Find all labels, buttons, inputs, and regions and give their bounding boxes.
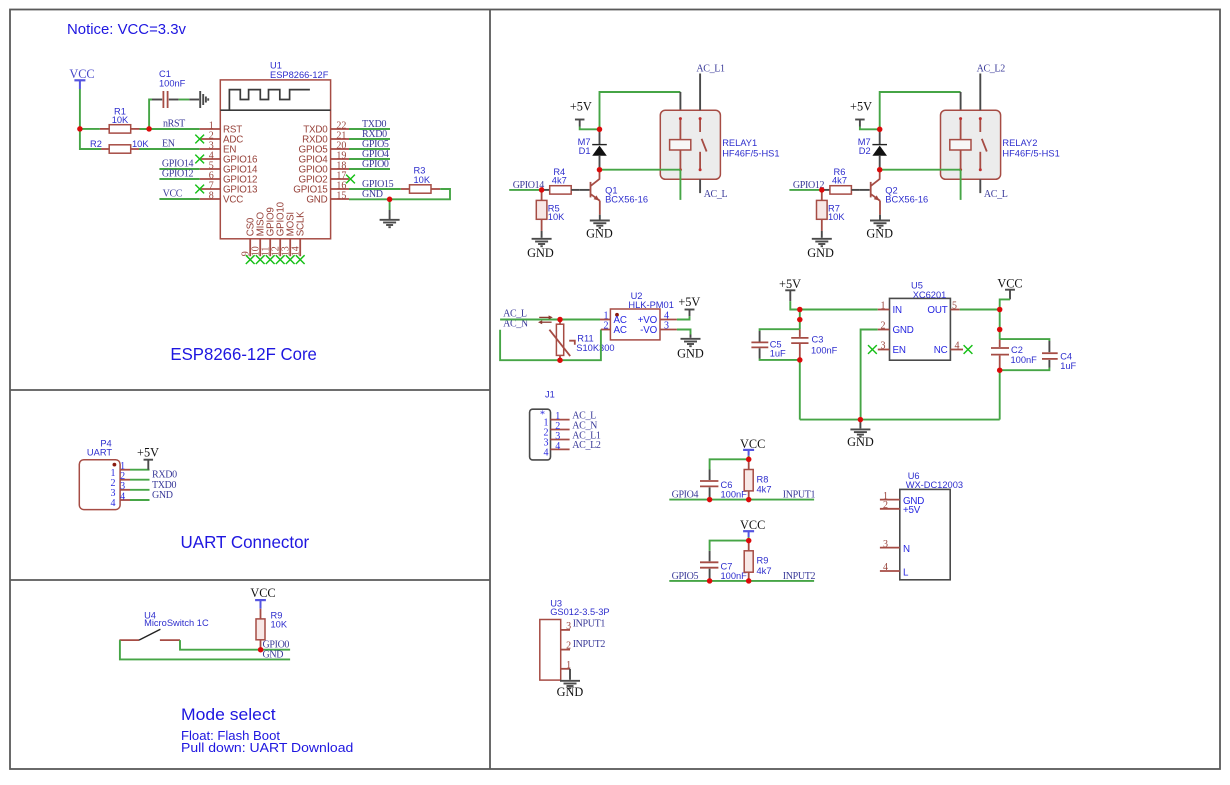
relay1 node collector junction [597, 167, 603, 173]
U5 pin 1 IN [878, 301, 902, 316]
relay2 wire +5V junction to relay coil top [880, 92, 961, 129]
frame divider box1/box2 [10, 389, 490, 391]
svg-text:2: 2 [883, 500, 888, 511]
relay1 node diode/+5V junction [597, 127, 603, 133]
wire OUT to VCC node [960, 309, 1000, 311]
wire C5 loop bottom [760, 359, 800, 360]
filter INPUT1 node VCC junction [746, 457, 752, 463]
P4 pin 1 [111, 461, 131, 479]
svg-text:R8: R8 [757, 474, 769, 484]
filter INPUT1 wire VCC stub [748, 456, 750, 460]
no-connect pin 9 [246, 255, 255, 264]
U2 pin 1 AC [600, 311, 627, 326]
wire OUT down [999, 310, 1001, 340]
U1 antenna separator [220, 109, 330, 111]
filter INPUT2 capacitor C7 100nF [700, 551, 747, 581]
ground at rail [850, 420, 870, 437]
relay1 diode M7 D1 [578, 129, 607, 169]
filter INPUT1 node cap bottom [707, 497, 713, 503]
svg-text:VCC: VCC [163, 189, 183, 200]
svg-text:GPIO4: GPIO4 [672, 490, 699, 501]
relay2 ground under Q2 [870, 221, 890, 228]
wire AC_L [500, 319, 600, 321]
svg-text:AC_L: AC_L [704, 189, 728, 200]
svg-text:4: 4 [555, 441, 560, 452]
relay1 wire +5V to diode [580, 127, 600, 130]
resistor R2 10K [90, 139, 149, 153]
J1 pin 4 [544, 441, 570, 459]
wire -VO to ground [677, 330, 691, 335]
svg-text:UART Connector: UART Connector [181, 532, 310, 552]
svg-text:3: 3 [881, 341, 886, 352]
node C3 bottom junction [797, 357, 803, 363]
U1 left pin 6 GPIO12 [200, 171, 258, 186]
svg-text:N: N [903, 544, 910, 555]
svg-text:BCX56-16: BCX56-16 [885, 194, 928, 204]
power flag VCC (U5 out) [997, 276, 1022, 299]
svg-text:4: 4 [544, 447, 549, 458]
filter INPUT2 wire VCC to cap [710, 541, 749, 551]
svg-text:IN: IN [893, 305, 903, 316]
no-connect pin 10 [256, 255, 265, 264]
node nRST junction [146, 126, 152, 132]
U5 pin 3 EN [878, 341, 906, 356]
svg-text:C3: C3 [812, 334, 824, 344]
no-connect pin 12 [276, 255, 285, 264]
connector U3 GS012-3.5-3P body [540, 599, 610, 681]
svg-text:10K: 10K [548, 212, 565, 222]
svg-text:10K: 10K [112, 115, 129, 125]
filter INPUT2 wire bottom [669, 580, 814, 582]
wire switch left to GND rail [120, 640, 290, 659]
wire +5V to rail [790, 301, 800, 309]
node R9/GPIO0 junction [258, 647, 264, 653]
svg-text:100nF: 100nF [721, 490, 748, 500]
wire C5 loop top [760, 329, 800, 331]
ground at U3 [560, 681, 580, 688]
relay1 power flag +5V [570, 99, 592, 126]
P4 pin 3 [111, 481, 131, 499]
no-connect pin 13 [286, 255, 295, 264]
svg-text:AC: AC [614, 325, 627, 336]
svg-text:1: 1 [881, 301, 886, 312]
U3 pin 2 [561, 641, 571, 652]
relay2 refdes RELAY2 [1002, 138, 1059, 158]
relay1 resistor R5 10K [536, 190, 565, 231]
capacitor C1 100nF [152, 69, 186, 108]
svg-text:VCC: VCC [250, 586, 275, 600]
svg-text:100nF: 100nF [811, 345, 838, 355]
relay2 wire Q emitter to ground [879, 215, 881, 220]
svg-text:MicroSwitch 1C: MicroSwitch 1C [144, 618, 209, 628]
wire U3 pin1 to ground [569, 669, 571, 680]
svg-text:3: 3 [566, 621, 571, 632]
power flag +5V (UART) [137, 446, 159, 470]
svg-text:J1: J1 [545, 389, 555, 399]
U1 refdes [270, 61, 329, 80]
svg-text:GPIO12: GPIO12 [162, 169, 194, 180]
U3 pin 3 [561, 621, 571, 632]
op-amp U6 WX-DC12003 body [900, 471, 963, 580]
svg-text:HLK-PM01: HLK-PM01 [628, 300, 673, 310]
relay1 wire relay coil top pin [679, 92, 681, 110]
U1 right pin 19 GPIO4 [299, 151, 349, 166]
power flag +5V (rail) [779, 277, 801, 301]
svg-text:VCC: VCC [223, 195, 243, 206]
no-connect pin4 GPIO16 [195, 155, 204, 164]
no-connect pin17 GPIO2 [346, 175, 355, 184]
relay1 wire collector to coil bottom [600, 169, 681, 171]
relay2 node diode/+5V junction [877, 127, 883, 133]
svg-text:HF46F/5-HS1: HF46F/5-HS1 [1002, 149, 1059, 159]
U1 left pin 4 GPIO16 [200, 151, 258, 166]
svg-text:GND: GND [893, 325, 914, 336]
svg-text:Notice: VCC=3.3v: Notice: VCC=3.3v [67, 22, 187, 38]
node gnd rail junction [858, 417, 864, 423]
svg-text:GND: GND [306, 195, 327, 206]
svg-text:2: 2 [566, 641, 571, 652]
relay2 wire R pull to ground [821, 231, 823, 238]
filter INPUT1 node res bottom [746, 497, 752, 503]
svg-text:C2: C2 [1011, 345, 1023, 355]
svg-text:2: 2 [604, 321, 609, 332]
U6 pin 3 N [880, 539, 910, 555]
wire C1 to ground [179, 99, 190, 101]
svg-text:S10K300: S10K300 [576, 343, 614, 353]
svg-text:100nF: 100nF [721, 571, 748, 581]
svg-text:GPIO0: GPIO0 [362, 159, 389, 170]
resistor R1 10K [100, 107, 140, 134]
svg-text:RELAY1: RELAY1 [722, 138, 757, 148]
filter INPUT2 node res bottom [746, 578, 752, 584]
no-connect pin2 ADC [195, 135, 204, 144]
svg-text:WX-DC12003: WX-DC12003 [906, 480, 963, 490]
J1 pin 3 [544, 431, 570, 449]
frame divider box2/box3 [10, 579, 490, 581]
relay2 wire GPIO12 to R pull [789, 189, 821, 191]
relay2 node collector junction [877, 167, 883, 173]
relay1 relay top-right pin [699, 74, 701, 111]
U1 right pin 22 TXD0 [303, 121, 349, 136]
svg-text:4: 4 [120, 491, 125, 502]
U2 pin 4 +VO [638, 311, 677, 326]
svg-text:R3: R3 [414, 165, 426, 175]
svg-text:AC_L1: AC_L1 [696, 64, 725, 75]
svg-text:GS012-3.5-3P: GS012-3.5-3P [550, 607, 609, 617]
U5 pin 5 OUT [927, 301, 959, 316]
svg-text:15: 15 [336, 191, 346, 202]
wire rail to U5 IN [800, 309, 878, 311]
node C2 bottom junction [997, 367, 1003, 373]
wire +VO to +5V [677, 316, 690, 319]
svg-text:GND: GND [152, 490, 173, 501]
op-amp U5 XC6201 body [890, 281, 951, 361]
svg-text:4k7: 4k7 [757, 566, 772, 576]
svg-text:GPIO5: GPIO5 [672, 571, 699, 582]
relay1 transistor Q1 BCX56-16 [591, 170, 649, 215]
svg-text:Mode select: Mode select [181, 705, 276, 724]
filter INPUT1 wire VCC to cap [710, 459, 749, 469]
svg-text:nRST: nRST [163, 119, 185, 130]
relay2 relay RELAY2 HF46F/5-HS1 body [941, 110, 1001, 179]
svg-text:2: 2 [881, 321, 886, 332]
wire P4 pin 3 [130, 489, 150, 491]
U1 right pin 17 GPIO2 [299, 171, 349, 186]
relay2 relay bottom-right pin [979, 179, 981, 193]
capacitor C2 100nF [991, 339, 1037, 370]
wire R2 to pin3 EN [139, 148, 200, 150]
svg-text:OUT: OUT [927, 305, 947, 316]
node VCC/R1/R2 junction [77, 126, 83, 132]
relay1 relay bottom-right pin [699, 179, 701, 193]
svg-text:5: 5 [952, 301, 957, 312]
svg-text:10K: 10K [132, 139, 149, 149]
relay2 diode M7 D2 [858, 129, 887, 169]
wire C4 loop top [1000, 339, 1050, 341]
U1 left pin 2 ADC [200, 131, 244, 146]
relay1 wire coil bottom down [679, 170, 681, 200]
U6 pin 4 L [880, 562, 909, 578]
U1 bottom pin 10 MISO [251, 211, 267, 256]
U1 bottom pin 12 GPIO10 [271, 201, 287, 256]
relay2 relay contact [979, 117, 987, 171]
svg-text:ESP8266-12F: ESP8266-12F [270, 70, 329, 80]
resistor R3 10K [401, 165, 440, 193]
wire switch right to GPIO0 rail [180, 640, 290, 650]
relay2 power flag +5V [850, 99, 872, 126]
U1 antenna glyph [229, 90, 310, 110]
U1 right pin 21 RXD0 [302, 131, 349, 146]
wire GPIO12 to pin6 [159, 178, 199, 180]
filter INPUT2 node VCC junction [746, 538, 752, 544]
no-connect pin7 GPIO13 [195, 185, 204, 194]
no-connect pin 14 [296, 255, 305, 264]
svg-text:+5V: +5V [678, 295, 700, 309]
svg-text:GND: GND [263, 650, 284, 661]
node rail junction 2 [797, 317, 803, 323]
relay2 wire relay coil top pin [960, 92, 962, 110]
relay2 relay top-right pin [979, 74, 981, 111]
node R11 bottom junction [557, 357, 563, 363]
svg-text:+5V: +5V [137, 446, 159, 460]
relay1 wire R pull to ground [541, 231, 543, 238]
op-amp U1 ESP8266-12F body [220, 80, 330, 239]
svg-text:GND: GND [866, 227, 893, 241]
svg-text:D1: D1 [579, 146, 591, 156]
svg-text:INPUT2: INPUT2 [783, 571, 816, 582]
U1 left pin 3 EN [200, 141, 237, 156]
svg-text:L: L [903, 567, 909, 578]
wire pin22 TXD0 [349, 128, 390, 130]
svg-text:8: 8 [209, 191, 214, 202]
U1 bottom pin 9 CS0 [241, 217, 257, 256]
ground (rotated) at C1 [189, 91, 208, 108]
U1 bottom pin 11 GPIO9 [261, 207, 277, 256]
svg-text:4: 4 [955, 341, 960, 352]
svg-text:100nF: 100nF [159, 79, 186, 89]
svg-text:NC: NC [934, 345, 948, 356]
wire C4 loop bottom [1000, 368, 1050, 371]
svg-text:GND: GND [586, 227, 613, 241]
ground at U1 pin15 [380, 210, 400, 227]
svg-text:+5V: +5V [570, 99, 592, 113]
svg-text:+5V: +5V [850, 99, 872, 113]
filter INPUT2 resistor R9 4k7 [744, 541, 771, 581]
svg-text:4: 4 [111, 498, 116, 509]
svg-text:EN: EN [162, 139, 175, 150]
U1 bottom pin 14 SCLK [291, 211, 307, 256]
wire C2 down to rail [999, 370, 1001, 419]
svg-text:INPUT1: INPUT1 [573, 619, 606, 630]
svg-text:R2: R2 [90, 139, 102, 149]
relay1 ground under R5 [532, 239, 552, 246]
power flag VCC (mode select) [250, 586, 275, 609]
wire pin20 GPIO5 [349, 148, 390, 150]
svg-text:ESP8266-12F Core: ESP8266-12F Core [170, 344, 317, 364]
U6 pin 2 +5V [880, 500, 921, 516]
svg-text:AC_L: AC_L [984, 189, 1008, 200]
U1 left pin 7 GPIO13 [200, 181, 258, 196]
wire P4 pin 4 [130, 499, 150, 501]
relay1 relay coil [670, 117, 691, 171]
U3 pin 1 [561, 660, 571, 671]
U1 right pin 15 GND [306, 191, 349, 206]
wire U5 GND loop [861, 330, 878, 420]
svg-text:D2: D2 [859, 146, 871, 156]
U2 pin 2 AC [601, 321, 627, 336]
wire GPIO14 to pin5 [159, 168, 199, 170]
svg-text:SCLK: SCLK [296, 211, 307, 236]
J1 pin 1 [544, 411, 570, 429]
svg-text:XC6201: XC6201 [913, 290, 947, 300]
svg-text:100nF: 100nF [1011, 355, 1038, 365]
svg-text:+5V: +5V [903, 505, 921, 516]
node GND junction (pin15) [387, 197, 393, 203]
relay1 wire GPIO14 to R pull [509, 189, 541, 191]
wire VCC vertical to R2 [80, 89, 101, 149]
filter INPUT1 resistor R8 4k7 [744, 459, 771, 499]
svg-text:Pull down: UART Download: Pull down: UART Download [181, 740, 353, 755]
U1 left pin 8 VCC [200, 191, 244, 206]
relay1 relay contact [699, 117, 707, 171]
svg-text:VCC: VCC [997, 276, 1022, 290]
no-connect U5 NC [964, 345, 973, 354]
filter INPUT2 power flag VCC [740, 518, 765, 537]
svg-text:UART: UART [87, 447, 112, 457]
wire rail down [799, 310, 801, 330]
U5 pin 2 GND [878, 321, 914, 336]
no-connect U5 EN [868, 345, 877, 354]
U2 pin 3 -VO [640, 321, 677, 336]
svg-text:VCC: VCC [69, 67, 94, 81]
relay2 ground under R7 [812, 239, 832, 246]
relay1 resistor R4 4k7 [542, 167, 580, 194]
svg-text:INPUT2: INPUT2 [573, 639, 606, 650]
resistor R9 10K (mode) [256, 609, 288, 650]
relay2 wire coil bottom down [960, 170, 962, 200]
svg-text:GND: GND [677, 346, 704, 360]
svg-text:HF46F/5-HS1: HF46F/5-HS1 [722, 149, 779, 159]
wire VCC to pin8 [159, 198, 199, 200]
surge arrows [538, 315, 553, 324]
svg-text:GND: GND [557, 685, 584, 699]
relay1 wire R to Q base [580, 189, 590, 191]
U6 pin 1 GND [880, 491, 924, 507]
svg-text:-VO: -VO [640, 325, 657, 336]
wire VCC elbow [1000, 299, 1010, 309]
power flag +5V (U2) [678, 295, 700, 316]
wire P4 pin 2 [130, 479, 150, 481]
svg-text:GND: GND [362, 189, 383, 200]
wire VCC to R1 [80, 128, 100, 130]
frame divider vertical [489, 10, 491, 770]
svg-text:10K: 10K [414, 175, 431, 185]
filter INPUT1 capacitor C6 100nF [700, 470, 747, 500]
U5 pin 4 NC [934, 341, 963, 356]
filter INPUT1 wire bottom [669, 499, 814, 501]
relay2 wire collector to coil bottom [880, 169, 961, 171]
relay1 wire +5V junction to relay coil top [600, 92, 681, 129]
svg-text:GND: GND [847, 435, 874, 449]
svg-text:10K: 10K [271, 619, 288, 629]
svg-text:BCX56-16: BCX56-16 [605, 194, 648, 204]
power flag VCC (blue) [69, 67, 94, 89]
U1 bottom pin 13 MOSI [281, 212, 297, 256]
svg-text:3: 3 [664, 321, 669, 332]
connector P4 UART body [79, 438, 120, 509]
svg-text:14: 14 [291, 246, 302, 256]
filter INPUT1 power flag VCC [740, 437, 765, 456]
relay2 transistor Q2 BCX56-16 [871, 170, 929, 215]
wire pin21 RXD0 [349, 138, 390, 140]
node OUT/VCC junction [997, 307, 1003, 313]
svg-text:4k7: 4k7 [757, 485, 772, 495]
svg-text:C1: C1 [159, 69, 171, 79]
relay1 node base junction [539, 187, 545, 193]
svg-text:+5V: +5V [779, 277, 801, 291]
svg-text:4k7: 4k7 [552, 175, 567, 185]
wire pin19 GPIO4 [349, 158, 390, 160]
svg-text:INPUT1: INPUT1 [783, 490, 816, 501]
wire R3 loop to GND row [349, 189, 450, 199]
switch U4 MicroSwitch 1C [119, 610, 209, 640]
node R11 top junction [557, 317, 563, 323]
no-connect pin 11 [266, 255, 275, 264]
wire pin16 GPIO15 to R3 [349, 188, 401, 190]
svg-text:10K: 10K [828, 212, 845, 222]
capacitor C4 1uF [1042, 341, 1077, 371]
node rail junction 1 [797, 307, 803, 313]
P4 pin 4 [111, 491, 131, 509]
U1 right pin 20 GPIO5 [299, 141, 349, 156]
relay2 resistor R6 4k7 [822, 167, 860, 194]
varistor R11 S10K300 [549, 320, 614, 361]
svg-text:R9: R9 [757, 556, 769, 566]
gnd rail bottom [800, 419, 1000, 421]
wire pin18 GPIO0 [349, 168, 390, 170]
wire P4 pin 1 [130, 469, 150, 471]
relay1 wire Q emitter to ground [599, 215, 601, 220]
wire R1 to pin1 [140, 128, 200, 130]
svg-text:1uF: 1uF [770, 348, 786, 358]
wire to ground pin15 [389, 199, 391, 210]
svg-text:4k7: 4k7 [832, 175, 847, 185]
svg-text:4: 4 [883, 562, 888, 573]
relay1 refdes RELAY1 [722, 138, 779, 158]
connector J1 body [530, 389, 555, 460]
wire junction up to C1 [149, 100, 152, 129]
relay1 ground under Q1 [590, 221, 610, 228]
